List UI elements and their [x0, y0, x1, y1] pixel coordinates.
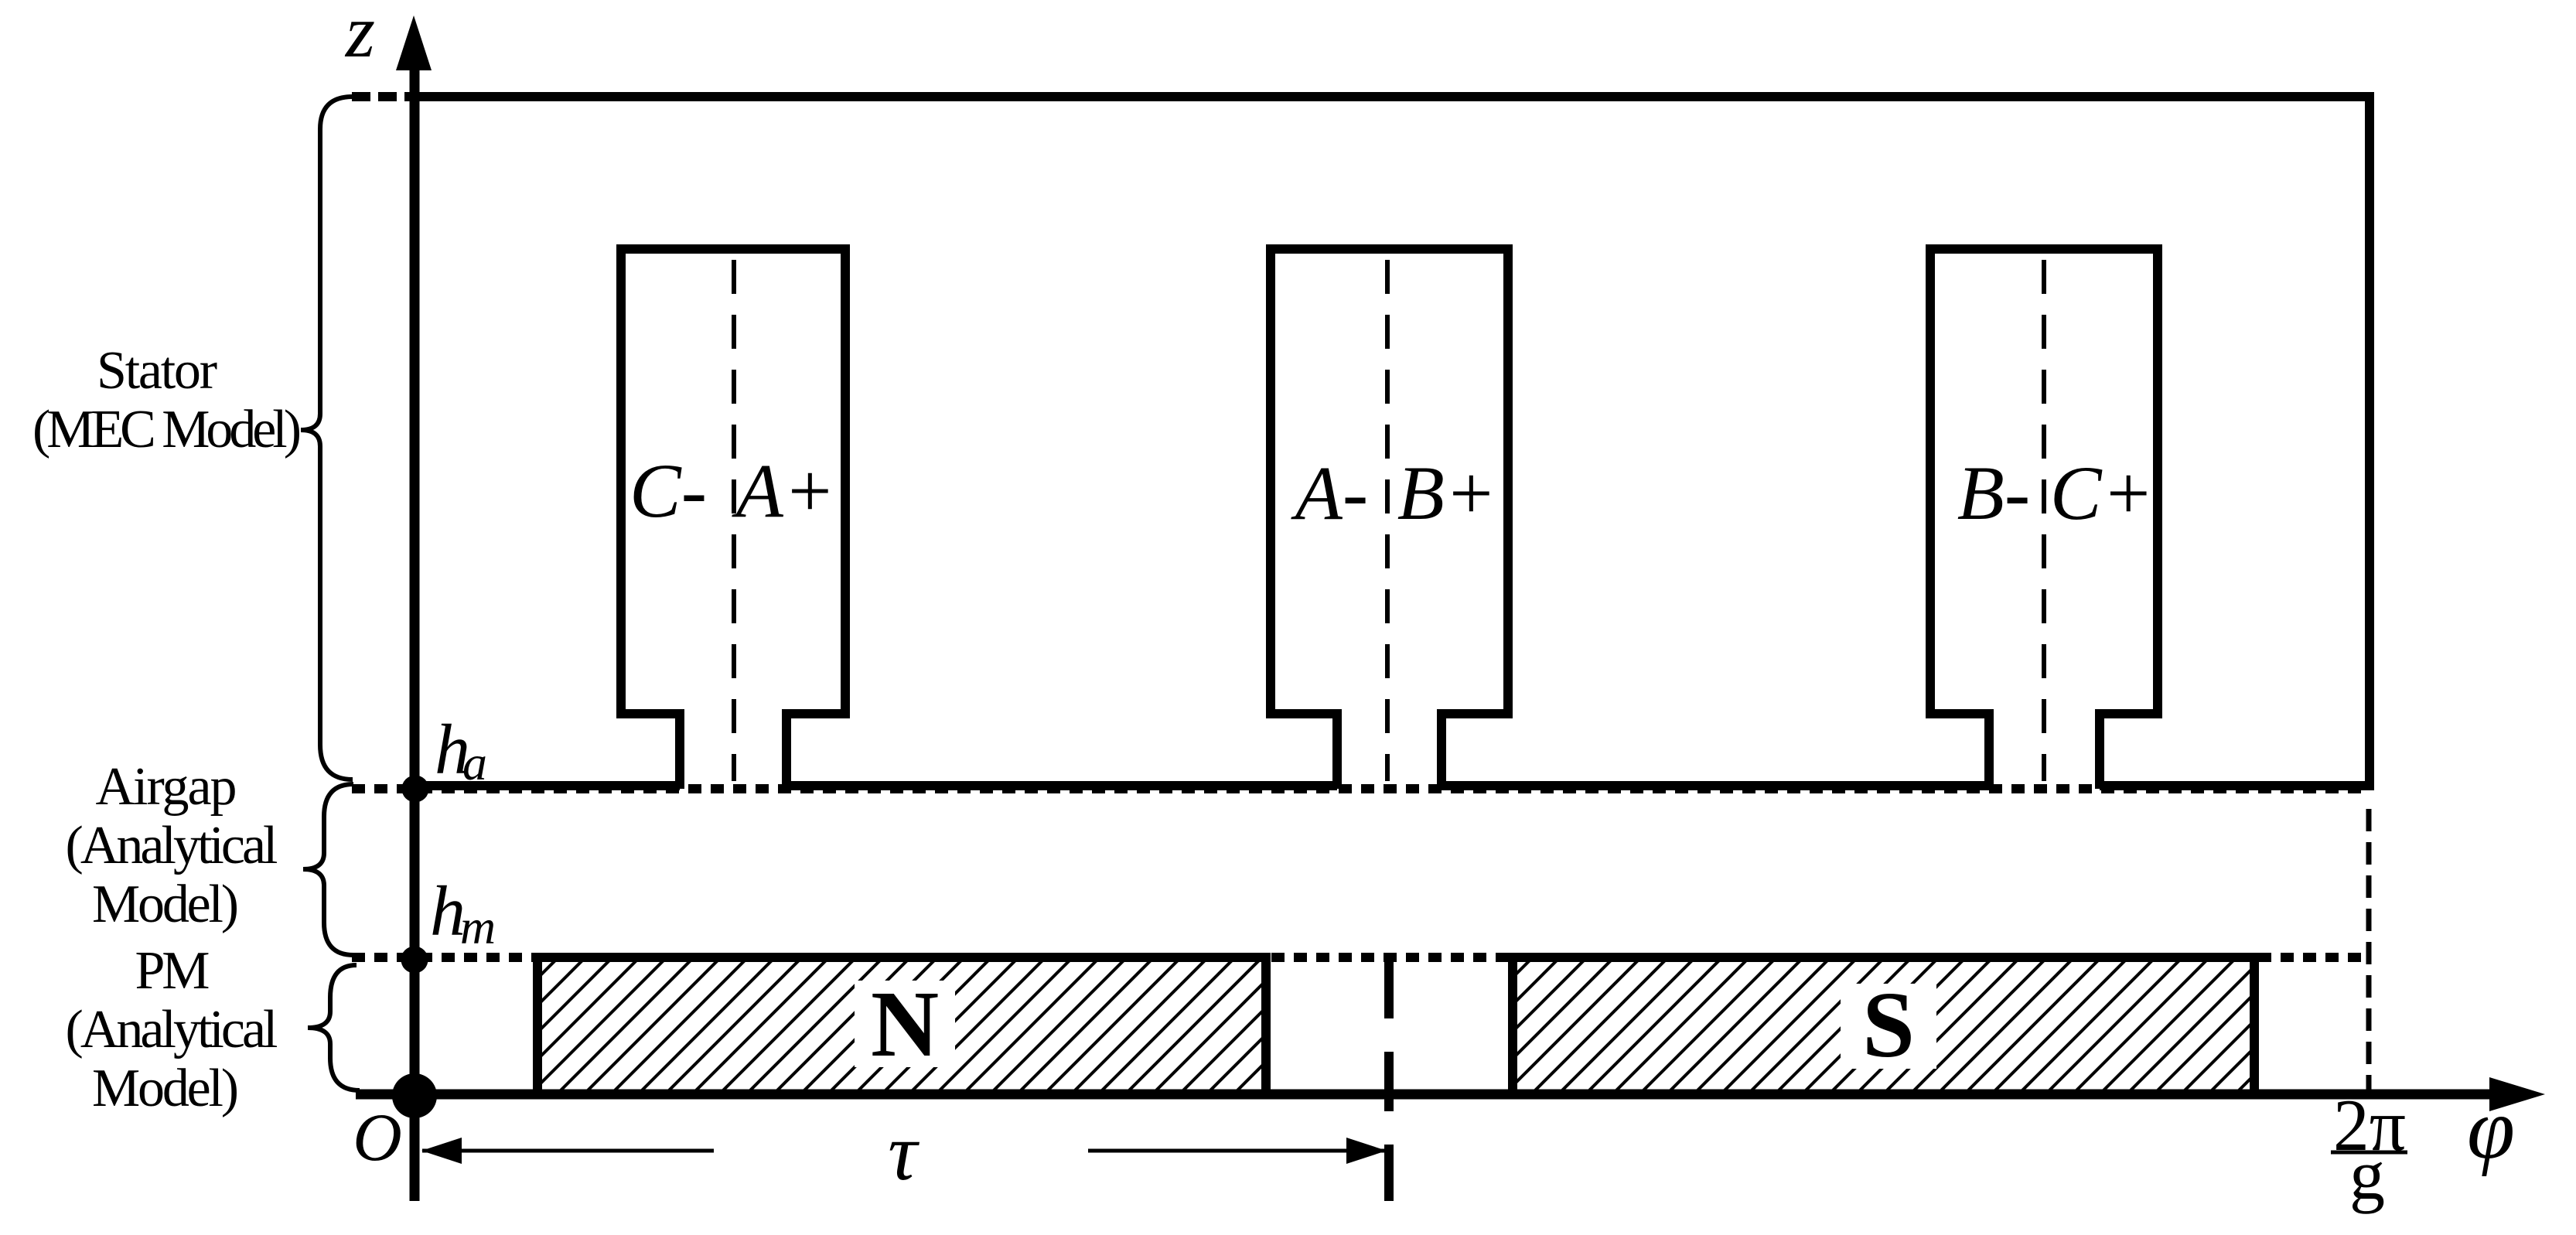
stator right edge [2365, 92, 2374, 790]
magnet S [1509, 954, 2258, 1094]
slot 3 center dashed line [2042, 260, 2046, 781]
node h_m dot [401, 947, 428, 974]
node h_a dot [402, 776, 429, 803]
label 2pi/g [2331, 1084, 2407, 1214]
label Stator (MEC Model) [32, 341, 302, 459]
label h_m [430, 872, 496, 954]
svg-text:τ: τ [888, 1107, 920, 1197]
slot 2 center dashed line [1385, 260, 1390, 781]
label Airgap (Analytical Model) [66, 757, 278, 934]
svg-text:N: N [871, 972, 939, 1076]
tau dimension line [421, 1138, 1387, 1164]
h_a dashed level line [352, 784, 2370, 793]
magnet N [534, 954, 1270, 1094]
h_m dashed level line [352, 953, 2370, 962]
stator top dashed stub [352, 92, 413, 101]
slot 1 center dashed line [732, 260, 736, 781]
svg-text:g: g [2349, 1135, 2385, 1214]
slot 3 outline [1930, 249, 2158, 789]
svg-text:B+: B+ [1397, 450, 1497, 536]
stator top edge [415, 92, 2370, 101]
svg-text:φ: φ [2467, 1081, 2515, 1177]
svg-text:m: m [460, 899, 496, 954]
right boundary dashed vertical [2366, 809, 2372, 1094]
svg-text:(Analytical: (Analytical [66, 816, 278, 875]
svg-text:(MEC Model): (MEC Model) [32, 400, 302, 459]
svg-text:z: z [344, 0, 375, 73]
svg-text:A+: A+ [732, 448, 836, 534]
pole pitch dashed vertical [1384, 959, 1394, 1201]
svg-text:Model): Model) [92, 1059, 239, 1118]
node origin dot [392, 1073, 437, 1118]
stator bottom h_a solid segments [415, 781, 2370, 790]
svg-text:C-: C- [629, 448, 707, 534]
svg-text:(Analytical: (Analytical [66, 1000, 278, 1059]
phi axis [356, 1077, 2545, 1111]
brace PM region [308, 965, 360, 1090]
svg-text:Model): Model) [92, 875, 239, 934]
z axis [396, 15, 432, 1201]
svg-text:S: S [1862, 973, 1915, 1077]
brace stator region [301, 97, 353, 780]
svg-text:A-: A- [1291, 450, 1368, 536]
slot 1 outline [621, 249, 845, 789]
svg-text:C+: C+ [2050, 450, 2154, 536]
svg-text:a: a [462, 735, 487, 790]
slot 2 outline [1271, 249, 1508, 789]
svg-text:O: O [353, 1100, 402, 1175]
label PM (Analytical Model) [66, 941, 278, 1118]
svg-text:PM: PM [135, 941, 210, 1001]
svg-text:B-: B- [1957, 450, 2030, 536]
brace airgap region [303, 784, 353, 955]
label h_a [435, 710, 487, 790]
svg-text:Stator: Stator [97, 341, 217, 401]
svg-text:Airgap: Airgap [96, 757, 237, 817]
